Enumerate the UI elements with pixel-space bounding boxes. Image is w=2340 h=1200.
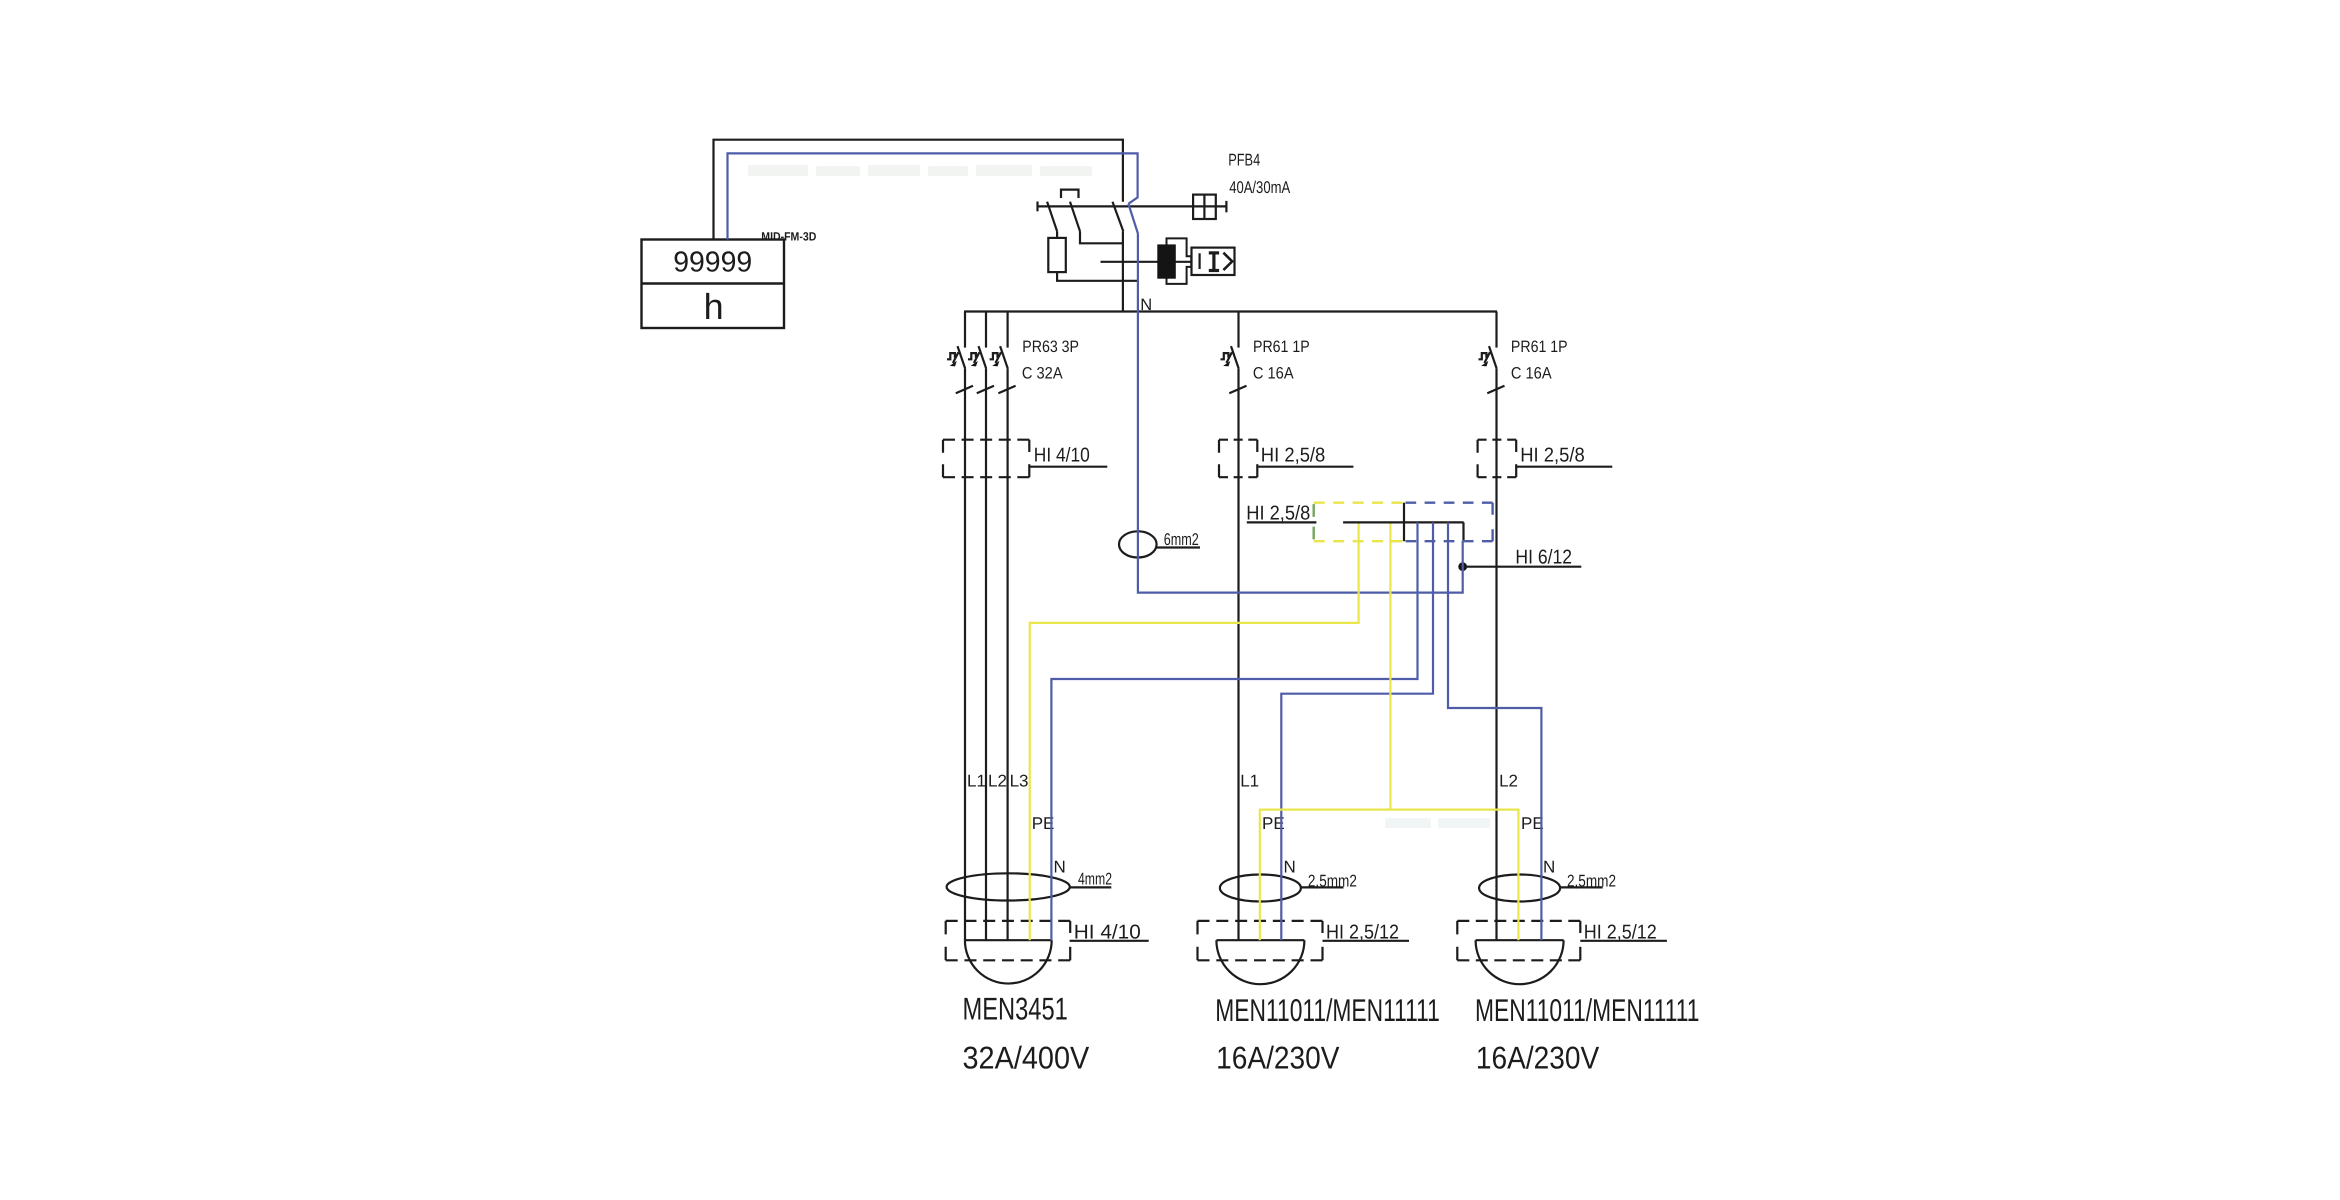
svg-text:HI 2,5/8: HI 2,5/8 xyxy=(1261,445,1326,467)
label tick HI 2,5/12 middle xyxy=(1321,921,1323,933)
RCD pole 3 blade xyxy=(1113,202,1124,232)
socket MEN11011 middle terminal xyxy=(1216,939,1304,941)
wire neutral main drop xyxy=(1138,234,1463,593)
svg-text:HI 2,5/8: HI 2,5/8 xyxy=(1520,445,1585,467)
svg-text:40A/30mA: 40A/30mA xyxy=(1229,178,1291,197)
svg-text:PR61 1P: PR61 1P xyxy=(1511,338,1568,356)
test button divider xyxy=(1203,195,1205,219)
underline HI 2,5/8 middle xyxy=(1257,466,1354,468)
trip relay I glyph xyxy=(1209,252,1219,272)
wire PE distribution drop xyxy=(1389,524,1391,810)
svg-text:2,5mm2: 2,5mm2 xyxy=(1567,872,1616,891)
socket box HI 4/10 bottom xyxy=(946,921,1070,960)
svg-text:PR61 1P: PR61 1P xyxy=(1253,338,1310,356)
label tick HI 2,5/8 right xyxy=(1515,440,1517,452)
socket MEN11011 middle arc xyxy=(1216,940,1304,984)
neutral wires (blue) xyxy=(728,153,1542,940)
wire neutral branch middle outlet xyxy=(1281,522,1433,940)
RCD pole 1 blade xyxy=(1047,202,1057,232)
svg-text:6mm2: 6mm2 xyxy=(1164,530,1199,549)
svg-text:2,5mm2: 2,5mm2 xyxy=(1308,872,1357,891)
distribution bus xyxy=(964,310,1497,312)
breaker PR63 3P pole L1 xyxy=(947,312,973,941)
trip relay contact line xyxy=(1198,253,1200,269)
svg-text:L2: L2 xyxy=(988,771,1007,790)
wire PE branch right outlet xyxy=(1390,810,1518,941)
underline HI 4/10 bottom xyxy=(1070,940,1149,942)
underline HI 2,5/8 junction xyxy=(1247,521,1317,523)
wire neutral branch right outlet xyxy=(1448,522,1541,940)
trip relay box I> xyxy=(1192,248,1235,275)
rail left tick xyxy=(1036,202,1038,212)
breaker PR63 3P pole L3 xyxy=(990,312,1016,941)
label tick HI 2,5/12 right xyxy=(1579,921,1581,933)
junction box top border blue xyxy=(1406,502,1493,504)
svg-text:16A/230V: 16A/230V xyxy=(1476,1039,1599,1075)
cable ellipse middle 2,5mm2 xyxy=(1220,875,1301,902)
socket MEN3451 arc xyxy=(965,940,1052,983)
svg-text:C 16A: C 16A xyxy=(1511,365,1552,383)
test button box xyxy=(1193,195,1216,219)
RCD mechanical linkage xyxy=(1061,190,1079,198)
svg-text:99999: 99999 xyxy=(673,247,752,279)
wire pole3 down to bus xyxy=(1122,231,1124,311)
leader 6mm2 xyxy=(1157,546,1200,548)
junction box left border green xyxy=(1312,504,1314,539)
svg-text:C 16A: C 16A xyxy=(1253,365,1294,383)
junction box bus bar xyxy=(1343,521,1464,523)
junction box bottom border yellow xyxy=(1314,540,1403,542)
underline HI 4/10 xyxy=(1029,466,1107,468)
svg-text:HI 2,5/8: HI 2,5/8 xyxy=(1246,502,1310,524)
cable ellipse left 4mm2 xyxy=(947,873,1070,900)
junction box feed drop xyxy=(1403,503,1405,542)
cable marker ellipse 6mm2 xyxy=(1119,531,1157,557)
svg-text:MEN11011/MEN11111: MEN11011/MEN11111 xyxy=(1475,992,1700,1028)
underline HI 2,5/12 middle xyxy=(1323,940,1410,942)
wire pole1 to test resistor xyxy=(1056,231,1058,238)
svg-text:L1: L1 xyxy=(1240,771,1259,790)
socket box HI 2,5/12 middle xyxy=(1198,921,1323,960)
svg-text:PE: PE xyxy=(1521,814,1544,833)
breaker PR63 3P pole L2 xyxy=(968,312,994,941)
wire PE branch middle outlet xyxy=(1260,810,1391,941)
junction box bottom border blue xyxy=(1406,540,1493,542)
socket MEN11011 right terminal xyxy=(1476,939,1564,941)
wire pole2 link xyxy=(1080,231,1123,243)
wire neutral branch left outlet xyxy=(1051,522,1417,940)
junction box bus stub xyxy=(1462,522,1464,541)
cable ellipse right 2,5mm2 xyxy=(1479,875,1560,902)
RCD pole 2 blade xyxy=(1070,202,1080,232)
svg-text:32A/400V: 32A/400V xyxy=(963,1039,1090,1075)
protective earth wires (yellow) xyxy=(1030,503,1519,941)
svg-text:N: N xyxy=(1284,858,1296,877)
junction box right border blue xyxy=(1491,503,1493,542)
leader 2,5mm2 middle xyxy=(1301,886,1344,888)
trip relay chevron xyxy=(1223,253,1232,270)
cable marker box HI 2,5/8 middle xyxy=(1219,440,1257,478)
current transformer outline xyxy=(1167,238,1192,284)
svg-text:L2: L2 xyxy=(1499,771,1518,790)
svg-text:16A/230V: 16A/230V xyxy=(1216,1039,1339,1075)
svg-text:4mm2: 4mm2 xyxy=(1078,870,1112,889)
leader 4mm2 xyxy=(1070,886,1112,888)
leader 2,5mm2 right xyxy=(1560,886,1603,888)
watermark band top xyxy=(748,165,1092,176)
socket MEN3451 terminal xyxy=(965,939,1052,941)
wire resistor bottom xyxy=(1057,272,1138,281)
label tick HI 4/10 xyxy=(1028,440,1030,452)
svg-text:HI 4/10: HI 4/10 xyxy=(1034,445,1090,467)
wire through current transformer xyxy=(1101,261,1192,263)
svg-text:h: h xyxy=(704,286,724,327)
wire PE left outlet xyxy=(1030,524,1359,941)
test resistor xyxy=(1048,238,1066,272)
watermark band middle xyxy=(1385,818,1490,828)
svg-text:PFB4: PFB4 xyxy=(1228,151,1260,170)
wire phase feed meter to RCD xyxy=(714,140,1123,240)
svg-text:PR63 3P: PR63 3P xyxy=(1022,338,1079,356)
svg-text:MEN11011/MEN11111: MEN11011/MEN11111 xyxy=(1215,992,1440,1028)
svg-text:L3: L3 xyxy=(1010,771,1029,790)
label tick HI 2,5/8 middle xyxy=(1256,440,1258,452)
socket box HI 2,5/12 right xyxy=(1457,921,1580,960)
cable marker box HI 4/10 top xyxy=(943,440,1029,478)
svg-text:N: N xyxy=(1543,858,1555,877)
underline HI 2,5/8 right xyxy=(1516,466,1613,468)
underline HI 2,5/12 right xyxy=(1580,940,1667,942)
svg-text:MID-FM-3D: MID-FM-3D xyxy=(761,230,816,244)
cable marker box HI 2,5/8 right xyxy=(1478,440,1517,478)
energy meter MID-FM-3D box xyxy=(642,240,785,329)
junction dot HI 6/12 xyxy=(1458,562,1467,571)
junction box top border yellow xyxy=(1314,502,1403,504)
svg-text:N: N xyxy=(1054,858,1066,877)
svg-text:MEN3451: MEN3451 xyxy=(963,991,1068,1027)
label tick HI 4/10 bottom xyxy=(1069,921,1071,933)
svg-text:C 32A: C 32A xyxy=(1022,365,1063,383)
svg-text:HI 6/12: HI 6/12 xyxy=(1515,547,1572,569)
breaker PR61 1P right xyxy=(1479,312,1505,941)
rail right tick xyxy=(1225,201,1227,212)
RCD rail xyxy=(1038,205,1227,207)
leader HI 6/12 xyxy=(1463,566,1582,568)
socket MEN11011 right arc xyxy=(1476,940,1564,984)
wire neutral meter to RCD xyxy=(728,153,1138,239)
breaker PR61 1P middle xyxy=(1221,312,1247,941)
RCD pole N blade xyxy=(1128,204,1138,234)
svg-text:L1: L1 xyxy=(967,771,986,790)
current transformer core xyxy=(1157,244,1176,278)
